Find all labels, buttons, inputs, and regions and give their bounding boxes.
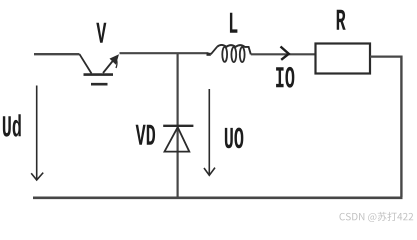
resistor R — [316, 44, 371, 74]
current arrow IO — [281, 47, 289, 60]
label V — [96, 23, 106, 43]
wire transistor to inductor (diode tap) — [120, 52, 209, 54]
label R — [337, 10, 346, 30]
inductor L — [207, 45, 251, 62]
label Ud — [3, 114, 21, 136]
voltage arrow UO — [204, 89, 215, 175]
label L — [230, 13, 237, 33]
label UO — [225, 128, 243, 149]
transistor V — [80, 54, 120, 84]
wire top-left input rail — [34, 53, 80, 55]
label VD — [136, 125, 155, 145]
wire right vertical — [400, 56, 402, 198]
diode VD — [163, 126, 193, 152]
wire resistor to right corner — [370, 55, 401, 57]
wire inductor to resistor — [251, 53, 316, 55]
watermark CSDN — [339, 212, 413, 222]
voltage arrow Ud — [31, 86, 43, 181]
wire bottom rail — [33, 197, 403, 200]
label IO — [276, 67, 294, 88]
wire diode branch vertical — [177, 53, 179, 197]
